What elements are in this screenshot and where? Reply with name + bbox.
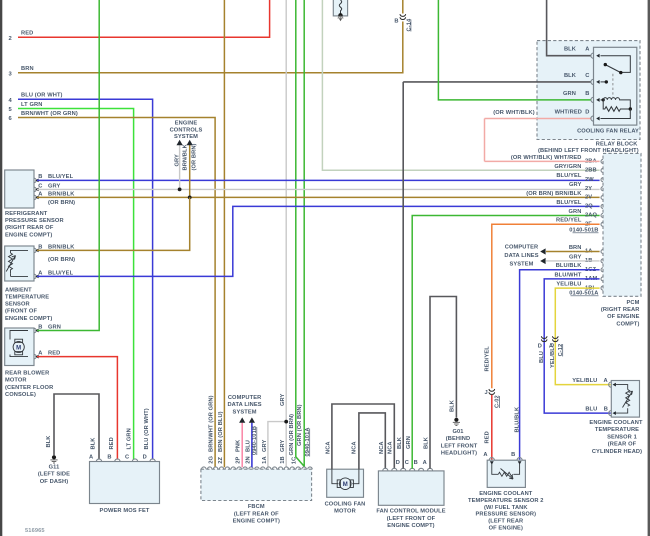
svg-text:LT GRN: LT GRN [127, 428, 133, 449]
svg-text:COMPT): COMPT) [616, 321, 639, 327]
svg-text:REFRIGERANT: REFRIGERANT [5, 211, 48, 217]
svg-text:C: C [125, 454, 129, 460]
svg-text:C-02: C-02 [495, 395, 501, 408]
svg-text:YEL/BLU: YEL/BLU [550, 343, 556, 368]
svg-text:1B: 1B [280, 456, 286, 463]
wire BRN/BLK refrigerant A to PCM 2V [37, 196, 600, 198]
wire GRY PCM 1B to computer data lines [546, 260, 600, 262]
wire BRN/BLK ambient B up to refrigerant A row junction [37, 197, 190, 250]
relay pin C arc [591, 79, 594, 84]
rear blower pin A arc [34, 354, 36, 358]
wire RED below C-02 to ECT2 pin A [491, 395, 493, 460]
svg-text:WHT/RED: WHT/RED [555, 110, 582, 116]
FBCM dashed box with scalloped pin edge [201, 469, 312, 500]
svg-text:(RIGHT REAR OF: (RIGHT REAR OF [5, 225, 54, 231]
wire GRN (OR BRN) #2 from top to FBCM pin 1C area [303, 0, 305, 467]
svg-text:COOLING FAN RELAY: COOLING FAN RELAY [577, 129, 639, 135]
svg-text:(REAR OF: (REAR OF [608, 442, 637, 448]
svg-text:2AQ: 2AQ [585, 213, 598, 219]
refrigerant pressure sensor pin B arc [34, 178, 36, 182]
wire connecting relay D rise at x=484.5 [484, 119, 486, 162]
svg-text:BLU: BLU [585, 407, 597, 413]
relay mechanical link (dashed) [612, 74, 614, 97]
svg-text:2G: 2G [209, 456, 215, 464]
wire GRN from top at x=438.4 to relay pin B [438, 0, 591, 100]
svg-text:CONSOLE): CONSOLE) [5, 392, 36, 398]
svg-text:BLU: BLU [245, 440, 251, 452]
svg-text:ENGINE COMPT): ENGINE COMPT) [387, 523, 434, 529]
arrow engine controls BRN/BLK [187, 140, 193, 145]
connector C-02 [489, 389, 495, 394]
svg-text:GRY/GRN: GRY/GRN [554, 164, 581, 170]
svg-text:OF DASH): OF DASH) [40, 479, 68, 485]
svg-text:SYSTEM: SYSTEM [233, 410, 257, 416]
wire WHT/RED relay pin D from PCM 2BA riser [485, 118, 592, 120]
svg-text:GRN (OR BRN): GRN (OR BRN) [297, 404, 303, 446]
svg-text:(BEHIND: (BEHIND [446, 436, 471, 442]
svg-text:COMPUTER: COMPUTER [505, 245, 539, 251]
svg-text:LEFT FRONT: LEFT FRONT [441, 443, 478, 449]
refrigerant pressure sensor box [5, 170, 34, 208]
svg-text:A: A [423, 460, 427, 466]
svg-text:D: D [585, 110, 589, 116]
wire BRN (OR BLU) from top to FBCM pin 2Z [223, 0, 225, 467]
ECT1 thermistor symbol [616, 385, 628, 414]
svg-text:BLU/BLK: BLU/BLK [556, 263, 583, 269]
svg-text:BRN: BRN [569, 245, 582, 251]
svg-text:BLK: BLK [424, 436, 430, 449]
svg-text:B: B [585, 91, 589, 97]
svg-text:RED: RED [109, 437, 115, 449]
rear blower pin B arc [34, 328, 36, 332]
wire PNK FBCM 2P to computer data lines [241, 423, 243, 468]
svg-text:(OR BRN) BRN/BLK: (OR BRN) BRN/BLK [526, 191, 582, 197]
refrigerant pressure sensor pin C arc [34, 187, 36, 191]
wire RED rear blower A down to POWER MOS FET pin B [37, 357, 117, 460]
wire BLK from top to relay pin A [547, 0, 592, 56]
svg-text:BRN/BLK: BRN/BLK [48, 244, 75, 250]
svg-text:(BEHIND LEFT FRONT HEADLIGHT): (BEHIND LEFT FRONT HEADLIGHT) [538, 148, 639, 154]
relay pin D arc [591, 116, 594, 121]
svg-text:B: B [38, 244, 42, 250]
wire GRY branch to engine controls system [179, 145, 181, 190]
svg-text:A: A [38, 270, 42, 276]
wire BLK power mos fet A to G11 [54, 394, 99, 460]
svg-text:(OR WHT/BLK) WHT/RED: (OR WHT/BLK) WHT/RED [511, 155, 582, 161]
svg-text:NCA: NCA [379, 441, 385, 454]
ECT2 pin B arc [517, 458, 522, 461]
PCM pin 2AQ GRN [601, 214, 603, 218]
PCM pin 2F RED/YEL [601, 222, 603, 226]
connector C-12 pin D [541, 336, 547, 341]
svg-text:OF ENGINE): OF ENGINE) [489, 526, 523, 532]
PCM pin 2BB GRY/GRN [601, 168, 603, 172]
svg-text:A: A [38, 191, 42, 197]
wire BLU/WHT PCM 1AM down through C-12 to ECT1 pin B [544, 279, 610, 413]
svg-text:ENGINE COMPT): ENGINE COMPT) [5, 232, 52, 238]
wire BLU/YEL ambient A right, up at x=232.8 to PCM 2Q [37, 206, 600, 276]
svg-text:2N: 2N [245, 456, 251, 463]
arrow computer data lines BRN [540, 248, 545, 254]
svg-text:BRN: BRN [21, 66, 34, 72]
svg-text:2Y: 2Y [585, 186, 592, 192]
wire BLK relay pin C from fan control module riser [403, 81, 591, 83]
svg-text:(FRONT OF: (FRONT OF [5, 309, 37, 315]
relay coil shunt resistor [603, 100, 629, 111]
svg-text:M: M [16, 345, 21, 351]
refrigerant pressure sensor pin A arc [34, 195, 36, 199]
svg-text:TEMPERATURE: TEMPERATURE [595, 427, 639, 433]
relay block dashed enclosure [537, 41, 640, 140]
ECT2 pin A arc [489, 458, 494, 461]
svg-text:HEADLIGHT): HEADLIGHT) [441, 451, 477, 457]
svg-text:B: B [38, 324, 42, 330]
svg-text:C: C [405, 460, 409, 466]
svg-text:2V: 2V [585, 195, 592, 201]
svg-text:0940-101A: 0940-101A [305, 427, 311, 456]
svg-text:2Q: 2Q [585, 204, 593, 210]
power mos fet pin C arc [132, 459, 137, 462]
svg-text:ENGINE COMPT): ENGINE COMPT) [5, 316, 52, 322]
svg-text:GRY: GRY [569, 182, 582, 188]
ECT1 pin B arc [609, 411, 612, 416]
fan control module pin arcs [383, 468, 388, 471]
svg-text:LT GRN: LT GRN [21, 102, 42, 108]
PCM pin 2Q BLU/YEL [601, 204, 603, 208]
cooling fan motor symbol [332, 469, 359, 484]
svg-text:C: C [38, 183, 42, 189]
svg-text:COOLING FAN: COOLING FAN [325, 501, 366, 507]
svg-text:D: D [396, 460, 400, 466]
svg-text:PRESSURE SENSOR: PRESSURE SENSOR [5, 218, 64, 224]
svg-text:POWER MOS FET: POWER MOS FET [100, 508, 150, 514]
svg-text:ENGINE COMPT): ENGINE COMPT) [233, 518, 280, 524]
wire GRY/GRN from top down to PCM pin 2BB row [322, 0, 599, 170]
svg-text:G11: G11 [49, 465, 60, 471]
arrow computer data lines GRY [540, 258, 545, 264]
cooling fan motor box [327, 469, 364, 497]
svg-text:BLK: BLK [91, 437, 97, 450]
svg-text:(RIGHT REAR: (RIGHT REAR [601, 307, 640, 313]
svg-text:C-14: C-14 [407, 18, 413, 31]
PCM pin 2W BLU/YEL [601, 178, 603, 182]
svg-text:BLK: BLK [450, 399, 456, 412]
svg-text:SENSOR 1: SENSOR 1 [607, 434, 637, 440]
svg-text:C-12: C-12 [558, 344, 564, 357]
svg-text:BLK: BLK [564, 73, 577, 79]
svg-text:PNK: PNK [236, 439, 242, 452]
svg-text:RELAY BLOCK: RELAY BLOCK [596, 141, 639, 147]
relay switch blade [605, 65, 621, 73]
relay coil from pin B [601, 99, 603, 101]
svg-text:(OR WHT/BLK): (OR WHT/BLK) [493, 110, 535, 116]
svg-text:A: A [38, 351, 42, 357]
fan control module box [378, 471, 444, 505]
ECT1 pin A arc [609, 382, 612, 387]
svg-text:TEMPERATURE: TEMPERATURE [5, 295, 49, 301]
svg-text:AMBIENT: AMBIENT [5, 287, 32, 293]
svg-text:(W/ FUEL TANK: (W/ FUEL TANK [484, 505, 528, 511]
svg-text:BRN/WHT (OR GRN): BRN/WHT (OR GRN) [209, 395, 215, 452]
wire RED/YEL PCM 2F down to C-02 [492, 224, 600, 388]
svg-text:2: 2 [9, 36, 12, 42]
svg-text:BLU/YEL: BLU/YEL [48, 174, 74, 180]
wire BLU/BLK PCM 1CZ down to ECT2 pin B [520, 270, 600, 460]
svg-text:M: M [343, 482, 348, 488]
engine coolant temperature sensor 2 box [487, 460, 525, 487]
svg-text:YEL/BLU: YEL/BLU [556, 282, 581, 288]
wire 5 LT GRN: row down to POWER MOS FET pin C [18, 109, 134, 460]
svg-text:1A: 1A [262, 456, 268, 463]
svg-text:CYLINDER HEAD): CYLINDER HEAD) [592, 449, 642, 455]
relay switch fixed contact from pin C [601, 81, 606, 83]
wire BRN PCM 1A to computer data lines [546, 251, 600, 253]
wire YEL/BLU PCM 1BI down through C-12 to ECT1 pin A [555, 288, 610, 385]
PCM dashed box [603, 153, 641, 296]
svg-text:BLU: BLU [539, 351, 545, 363]
relay coil return to pin D [601, 109, 631, 119]
wire BLU/YEL refrigerant B to PCM 2W [37, 179, 600, 181]
svg-text:CONTROLS: CONTROLS [170, 127, 203, 133]
svg-text:OF ENGINE: OF ENGINE [607, 314, 639, 320]
wire 6 BRN/WHT (OR GRN): row down to FBCM pin 2G [18, 118, 215, 468]
wire 2 RED: row from left edge up at x=269.6 to top [18, 0, 270, 37]
wire NCA cooling fan motor left to fan control module pin 2 [332, 404, 394, 469]
svg-text:DATA LINES: DATA LINES [227, 402, 261, 408]
arrow engine controls GRY [177, 140, 183, 145]
PCM pin 2BA (OR WHT/BLK) WHT/RED [601, 159, 603, 163]
svg-text:J: J [485, 390, 488, 396]
svg-text:DATA LINES: DATA LINES [504, 253, 538, 259]
svg-text:(CENTER FLOOR: (CENTER FLOOR [5, 385, 53, 391]
svg-text:B: B [107, 454, 111, 460]
ambient sensor pin A arc [34, 274, 36, 278]
svg-text:2W: 2W [585, 177, 594, 183]
junction BRN/BLK at refrigerant A row [188, 196, 192, 200]
wire 4 BLU (OR WHT): row down to POWER MOS FET pin D [18, 99, 153, 459]
wire 3 BRN: row to C-14 riser at x=402.8 [18, 0, 403, 73]
page right border [648, 0, 650, 536]
svg-text:(LEFT FRONT OF: (LEFT FRONT OF [387, 516, 436, 522]
relay pin A arc [591, 53, 594, 58]
wire GRN rear blower B from top at x=99.2 [37, 0, 99, 331]
svg-text:BLU/YEL: BLU/YEL [556, 173, 582, 179]
ambient temperature sensor box [5, 246, 34, 281]
connector C-14 on BRN wire [400, 14, 406, 19]
svg-text:BLU/YEL: BLU/YEL [48, 270, 74, 276]
svg-text:BLK: BLK [564, 47, 577, 53]
svg-text:RED: RED [484, 431, 490, 443]
wire WHT/RED 2BA horizontal into PCM [485, 160, 600, 162]
ground G11 [52, 455, 56, 459]
arrow computer data lines BLU [249, 417, 255, 422]
svg-text:1C: 1C [291, 457, 297, 464]
wire BLU FBCM 2N to computer data lines [251, 423, 253, 468]
svg-text:SYSTEM: SYSTEM [174, 134, 198, 140]
svg-text:GRY: GRY [280, 393, 286, 406]
svg-text:GRY: GRY [48, 183, 61, 189]
svg-text:BRN (OR BLU): BRN (OR BLU) [218, 411, 224, 452]
svg-text:GRN: GRN [48, 324, 61, 330]
wire BRN/BLK branch to engine controls system [189, 145, 191, 198]
ground G01 [454, 418, 458, 422]
PCM pin 2Y GRY [601, 187, 603, 191]
rear blower motor box [5, 328, 34, 366]
svg-text:B: B [414, 460, 418, 466]
svg-text:A: A [483, 452, 487, 458]
cooling fan relay inner box [594, 47, 637, 125]
power mos fet box [90, 462, 160, 504]
PCM pin 1B GRY [601, 259, 603, 263]
svg-text:RED/YEL: RED/YEL [484, 346, 490, 372]
svg-text:YEL/BLU: YEL/BLU [572, 378, 597, 384]
svg-text:GRY: GRY [569, 254, 582, 260]
engine coolant temperature sensor 1 box [611, 381, 639, 418]
svg-text:B: B [604, 407, 608, 413]
svg-text:C: C [585, 73, 589, 79]
svg-text:BLU (OR WHT): BLU (OR WHT) [21, 93, 63, 99]
svg-text:A: A [89, 454, 93, 460]
wire GRN (OR BRN) from top, bends into FBCM last pin [296, 0, 304, 466]
wire GRY refrigerant C to PCM 2Y [37, 188, 600, 190]
svg-text:FBCM: FBCM [248, 504, 265, 510]
svg-text:MOTOR: MOTOR [334, 509, 356, 515]
svg-text:ENGINE COOLANT: ENGINE COOLANT [479, 491, 533, 497]
svg-text:B: B [511, 452, 515, 458]
power mos fet pin A arc [96, 459, 101, 462]
svg-text:ENGINE COOLANT: ENGINE COOLANT [589, 420, 643, 426]
wire GRY branch FBCM pin 1A [268, 422, 286, 468]
svg-text:NCA: NCA [352, 441, 358, 454]
svg-text:2BB: 2BB [585, 168, 597, 174]
svg-text:GRY: GRY [280, 439, 286, 452]
rear blower motor symbol [10, 331, 28, 357]
connector C-12 pin A [552, 336, 558, 341]
svg-text:B: B [394, 19, 398, 25]
wire BLK fan control module A to G01 [430, 297, 456, 469]
svg-text:(OR BRN): (OR BRN) [48, 200, 75, 206]
svg-text:NCA: NCA [325, 441, 331, 454]
svg-text:BLU/BLK: BLU/BLK [514, 406, 520, 432]
svg-text:2Z: 2Z [218, 457, 224, 464]
power mos fet pin D arc [150, 459, 155, 462]
PCM pin 1BI YEL/BLU [601, 286, 603, 290]
svg-text:BLU/WHT: BLU/WHT [554, 272, 581, 278]
svg-text:REAR BLOWER: REAR BLOWER [5, 371, 49, 377]
ECT2 thermistor symbol [492, 463, 520, 474]
svg-text:G01: G01 [452, 429, 463, 435]
svg-text:BRN/BLK: BRN/BLK [48, 191, 75, 197]
svg-text:FAN CONTROL MODULE: FAN CONTROL MODULE [376, 509, 445, 515]
svg-text:(LEFT REAR: (LEFT REAR [488, 519, 523, 525]
svg-text:RED/YEL: RED/YEL [556, 218, 582, 224]
svg-text:D: D [143, 454, 147, 460]
svg-text:GRN (OR BRN): GRN (OR BRN) [289, 414, 295, 456]
junction GRY at refrigerant C row [178, 188, 182, 192]
svg-text:(LEFT REAR OF: (LEFT REAR OF [234, 511, 279, 517]
wire GRN fan control module C up to PCM 2AQ [412, 216, 599, 469]
junction GRY 1A/1B [284, 420, 288, 424]
svg-text:BLU (OR WHT): BLU (OR WHT) [144, 408, 150, 449]
relay switch common hook from pin A [601, 56, 631, 73]
svg-text:BRN/BLK: BRN/BLK [183, 143, 189, 170]
PCM pin 2V (OR BRN) BRN/BLK [601, 196, 603, 200]
svg-text:0940-101B: 0940-101B [252, 426, 258, 455]
page left border [0, 0, 2, 536]
svg-text:RED: RED [21, 31, 33, 37]
svg-text:RED: RED [48, 351, 60, 357]
svg-text:BLK: BLK [397, 436, 403, 449]
svg-text:A: A [604, 378, 608, 384]
PCM pin 1CZ BLU/BLK [601, 268, 603, 272]
relay pin B arc [591, 97, 594, 102]
svg-text:BLK: BLK [46, 435, 52, 448]
wire NCA cooling fan motor right to fan control module pin 1 [359, 413, 385, 469]
svg-text:COMPUTER: COMPUTER [228, 395, 262, 401]
ambient sensor pin B arc [34, 248, 36, 252]
svg-text:BLU/YEL: BLU/YEL [556, 200, 582, 206]
wire GRY from top to FBCM pin 1B, junction with 1A branch [285, 0, 287, 467]
fuse at top edge (cut off) [333, 0, 347, 16]
svg-text:516965: 516965 [25, 528, 45, 534]
svg-text:TEMPERATURE SENSOR 2: TEMPERATURE SENSOR 2 [468, 498, 544, 504]
svg-text:(LEFT SIDE: (LEFT SIDE [38, 472, 70, 478]
PCM pin 1AM BLU/WHT [601, 277, 603, 281]
power mos fet pin B arc [115, 459, 120, 462]
wire BLK fan control module D up to relay pin C [402, 82, 404, 469]
svg-text:(OR BRN): (OR BRN) [48, 257, 75, 263]
svg-text:(OR BRN): (OR BRN) [192, 143, 198, 170]
svg-text:A: A [585, 47, 589, 53]
svg-text:GRN: GRN [563, 91, 576, 97]
svg-text:PRESSURE SENSOR): PRESSURE SENSOR) [475, 512, 536, 518]
svg-text:GRY: GRY [174, 154, 180, 167]
svg-text:BRN/WHT (OR GRN): BRN/WHT (OR GRN) [21, 111, 78, 117]
svg-text:PCM: PCM [627, 300, 640, 306]
svg-text:D: D [538, 344, 542, 350]
svg-text:SENSOR: SENSOR [5, 302, 30, 308]
svg-text:SYSTEM: SYSTEM [509, 261, 533, 267]
PCM pin 1A BRN [601, 250, 603, 254]
svg-text:2P: 2P [236, 457, 242, 464]
svg-text:ENGINE: ENGINE [175, 121, 198, 127]
svg-text:GRN: GRN [569, 209, 582, 215]
svg-text:GRN: GRN [406, 436, 412, 449]
svg-text:NCA: NCA [388, 441, 394, 454]
svg-text:MOTOR: MOTOR [5, 378, 27, 384]
svg-text:B: B [38, 174, 42, 180]
svg-text:GRY: GRY [262, 439, 268, 452]
arrow computer data lines PNK [239, 417, 245, 422]
ambient sensor thermistor symbol [11, 250, 29, 276]
